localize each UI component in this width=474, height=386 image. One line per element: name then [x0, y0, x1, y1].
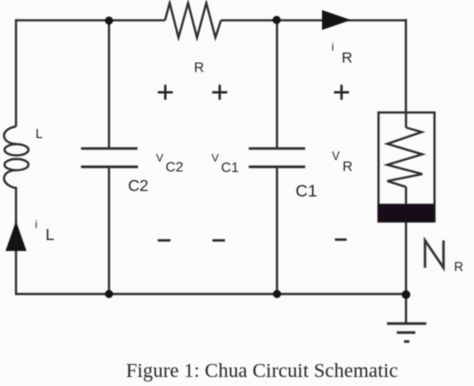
- svg-text:R: R: [342, 49, 353, 66]
- svg-text:C2: C2: [128, 178, 149, 195]
- svg-text:V: V: [332, 151, 340, 163]
- svg-text:V: V: [212, 152, 220, 164]
- svg-text:R: R: [343, 158, 353, 174]
- svg-text:C1: C1: [296, 182, 318, 201]
- svg-text:V: V: [156, 152, 164, 164]
- svg-text:i: i: [35, 219, 37, 231]
- svg-text:R: R: [194, 59, 204, 75]
- svg-text:C2: C2: [166, 159, 184, 175]
- svg-text:i: i: [332, 42, 334, 54]
- svg-text:Figure 1: Chua Circuit Schemat: Figure 1: Chua Circuit Schematic: [126, 360, 398, 382]
- svg-text:L: L: [46, 227, 55, 244]
- svg-text:L: L: [36, 126, 43, 141]
- svg-text:R: R: [454, 259, 463, 274]
- svg-text:C1: C1: [221, 159, 239, 175]
